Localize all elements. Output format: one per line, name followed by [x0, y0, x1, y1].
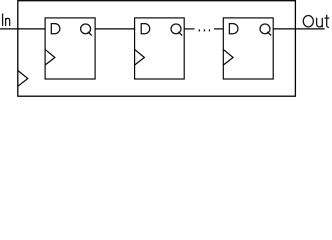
node In label	[3, 14, 10, 27]
node Out label	[303, 15, 329, 28]
flip-flop U2 box	[135, 18, 185, 79]
wire ellipsis to U3.D	[214, 28, 223, 30]
pin D of U3	[229, 24, 238, 34]
wire U3.Q to Out	[273, 28, 325, 30]
clock chevron U2	[135, 49, 145, 65]
pin D of U1	[51, 24, 60, 34]
pin D of U2	[141, 24, 150, 34]
pin Q of U3	[260, 24, 271, 35]
clock chevron outer box	[18, 71, 28, 87]
flip-flop U1 box	[45, 18, 95, 79]
clock chevron U1	[45, 49, 55, 65]
outer box shift-register module	[18, 1, 296, 97]
wire In input	[0, 28, 45, 30]
pin Q of U2	[171, 24, 182, 35]
clock chevron U3	[223, 49, 233, 65]
wire U1.Q to U2.D	[95, 28, 135, 30]
flip-flop U3 box	[223, 18, 273, 79]
ellipsis continuation dots	[199, 29, 211, 31]
wire U2.Q toward ellipsis	[184, 28, 194, 30]
pin Q of U1	[81, 24, 92, 35]
